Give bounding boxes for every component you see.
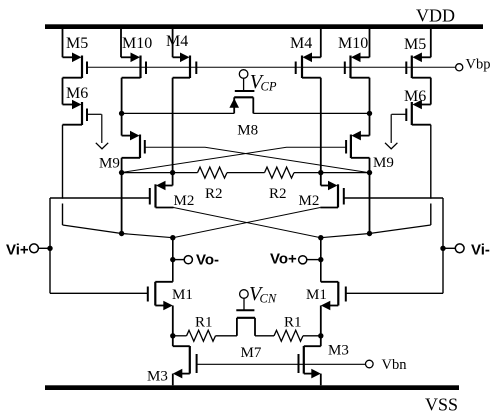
VSS rail xyxy=(45,385,459,390)
svg-text:M10: M10 xyxy=(122,35,152,52)
wire M8 right to M10 right drain xyxy=(253,112,369,114)
resistor R2 (right) xyxy=(265,167,295,178)
wire Vo+ vertical xyxy=(320,238,322,282)
svg-text:M10: M10 xyxy=(338,35,368,52)
node VCN terminal xyxy=(240,290,249,299)
junction left cascode node xyxy=(119,231,124,236)
svg-text:VDD: VDD xyxy=(416,6,455,26)
resistor R1 (right) xyxy=(274,330,303,341)
transistor M2 (left) xyxy=(150,181,174,208)
junction R1L / M1L source xyxy=(170,333,175,338)
junction M10R-M9R-M8 xyxy=(367,111,372,116)
svg-text:M9: M9 xyxy=(99,156,120,172)
wire R2 net right xyxy=(294,172,370,174)
svg-text:R1: R1 xyxy=(284,315,302,331)
wire M2L source to Vo+ node (diagonal) xyxy=(174,208,321,238)
svg-text:R1: R1 xyxy=(195,315,213,331)
junction Vo+ tap xyxy=(318,257,323,262)
wire M6R drain down xyxy=(430,125,432,199)
transistor M10 (left) xyxy=(121,29,146,113)
wire M9L gate cross-coupled to right node xyxy=(145,147,370,172)
wire Vo+ tap xyxy=(307,259,321,261)
transistor M5 (left) xyxy=(63,29,88,78)
junction M10L-M9L-M8 xyxy=(119,111,124,116)
node Vi- terminal xyxy=(455,244,464,253)
transistor M4 (left) xyxy=(173,29,197,186)
transistor M10 (right) xyxy=(345,29,370,113)
wire M6R drain diagonal to right node xyxy=(370,225,431,234)
wire Vi+ to input net xyxy=(38,247,50,249)
wire M2R source to Vo- node (diagonal) xyxy=(173,208,320,238)
svg-text:M7: M7 xyxy=(241,345,262,361)
svg-text:R2: R2 xyxy=(269,186,287,202)
transistor M3 (right) xyxy=(299,336,321,386)
svg-text:Vi-: Vi- xyxy=(471,242,490,259)
wire M6L drain down xyxy=(62,125,64,199)
transistor M1 (left) xyxy=(148,282,173,336)
node Vi+ terminal xyxy=(30,244,39,253)
transistor M4 (right) xyxy=(296,29,321,186)
wire R2 net left xyxy=(122,172,198,174)
svg-text:R2: R2 xyxy=(205,186,223,202)
node Vo+ junction xyxy=(318,235,323,240)
wire Vi- net vertical xyxy=(442,198,444,293)
wire Vbp gate bus xyxy=(87,66,455,68)
node Vbn terminal xyxy=(366,360,374,368)
junction Vi+ net xyxy=(47,246,52,251)
wire Vi+ net to M1L gate xyxy=(50,292,148,294)
wire Vi- net to M2R gate xyxy=(344,197,443,199)
wire M8 left to M10 left drain xyxy=(122,112,235,114)
wire M6 right gate to ground xyxy=(392,113,407,115)
node Vo- junction xyxy=(170,235,175,240)
svg-text:M4: M4 xyxy=(166,33,188,50)
svg-text:M8: M8 xyxy=(237,122,258,138)
svg-text:Vbn: Vbn xyxy=(382,357,408,373)
transistor M9 (right) xyxy=(346,113,369,233)
svg-text:M9: M9 xyxy=(373,155,394,171)
transistor M6 (right) xyxy=(406,78,431,125)
wire left node to Vo- node xyxy=(122,234,173,238)
transistor M9 (left) xyxy=(122,113,145,233)
wire Vo- tap xyxy=(173,259,184,261)
svg-text:CP: CP xyxy=(261,80,277,94)
wire Vi- to input net xyxy=(443,247,455,249)
svg-text:VSS: VSS xyxy=(425,395,458,415)
transistor M3 (left) xyxy=(173,336,197,386)
node Vbp terminal xyxy=(456,64,463,71)
svg-text:Vbp: Vbp xyxy=(466,57,491,73)
junction M4L drain / R2 xyxy=(170,170,175,175)
node Vo- terminal xyxy=(184,256,192,264)
svg-text:M3: M3 xyxy=(147,369,168,385)
wire right node to Vo+ node xyxy=(321,234,370,238)
svg-text:M4: M4 xyxy=(290,35,312,52)
wire M9R gate cross-coupled to left node xyxy=(122,147,347,172)
transistor M8 xyxy=(229,78,254,113)
VDD rail xyxy=(45,24,483,29)
junction Vo- tap xyxy=(170,257,175,262)
svg-text:M6: M6 xyxy=(66,85,88,102)
svg-text:M1: M1 xyxy=(306,287,327,303)
junction R1R / M1R source xyxy=(318,333,323,338)
transistor M5 (right) xyxy=(406,29,431,78)
svg-text:Vi+: Vi+ xyxy=(6,242,29,259)
svg-text:M5: M5 xyxy=(66,35,88,52)
transistor M2 (right) xyxy=(320,181,344,208)
junction Vi- net xyxy=(440,246,445,251)
junction M4R drain / R2 xyxy=(318,170,323,175)
resistor R2 (left) xyxy=(198,167,228,178)
ground (right) xyxy=(385,143,397,149)
svg-text:M5: M5 xyxy=(404,36,426,53)
svg-text:M6: M6 xyxy=(404,88,426,105)
junction M9L drain xyxy=(119,170,124,175)
wire M6L drain diagonal to left node xyxy=(63,225,122,234)
resistor R1 (left) xyxy=(187,330,216,341)
wire R1 left lead xyxy=(173,335,187,337)
wire Vo- vertical xyxy=(172,238,174,282)
transistor M6 (left) xyxy=(63,78,88,125)
wire R1 right to junction xyxy=(303,335,321,337)
svg-text:M3: M3 xyxy=(328,343,349,359)
transistor M1 (right) xyxy=(321,282,346,336)
svg-text:M2: M2 xyxy=(299,193,320,209)
wire Vi+ net to M2L gate xyxy=(50,197,150,199)
wire M7 right to R1 right xyxy=(255,335,274,337)
wire Vi+ net vertical xyxy=(49,198,51,293)
wire Vi- net to M1R gate xyxy=(345,292,443,294)
transistor M7 xyxy=(236,298,255,336)
svg-text:M1: M1 xyxy=(172,287,193,303)
junction right cascode node xyxy=(367,231,372,236)
svg-text:Vo-: Vo- xyxy=(196,252,219,269)
svg-text:Vo+: Vo+ xyxy=(270,251,297,268)
wire R1 left to M7 xyxy=(216,335,237,337)
node Vo+ terminal xyxy=(299,256,307,264)
junction M9R drain xyxy=(367,170,372,175)
svg-text:CN: CN xyxy=(260,292,277,306)
ground (left) xyxy=(96,143,108,149)
svg-text:M2: M2 xyxy=(174,193,195,209)
node VCP terminal xyxy=(239,70,248,79)
wire M6 left gate to ground xyxy=(87,113,102,115)
wire M3 gate bus to Vbn xyxy=(197,363,366,365)
wire R2 net middle xyxy=(227,172,265,174)
